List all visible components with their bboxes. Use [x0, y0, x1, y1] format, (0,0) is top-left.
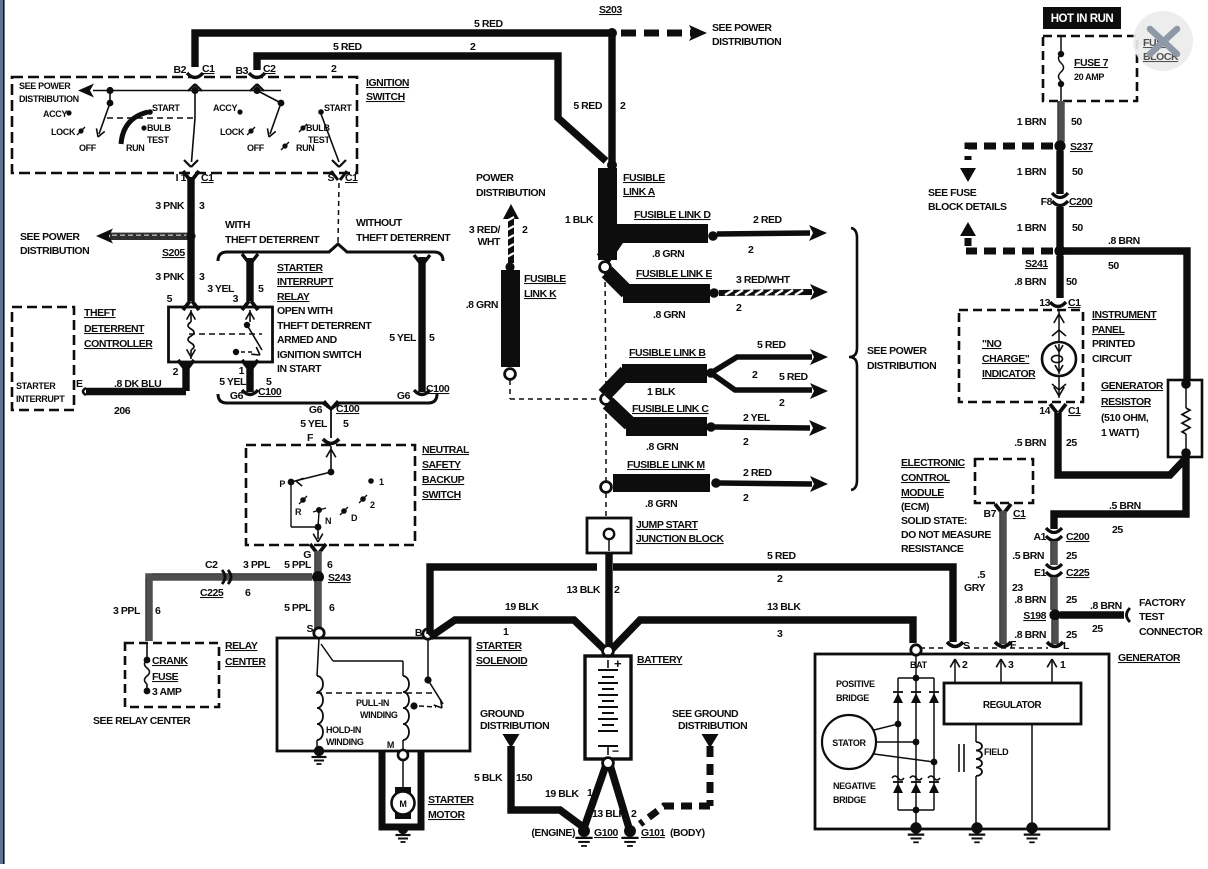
svg-text:STARTER: STARTER: [16, 381, 56, 391]
wire 5 BLK ground distribution to G100: [511, 746, 583, 827]
svg-text:(ECM): (ECM): [901, 501, 929, 513]
connector C2 C225: [222, 570, 225, 584]
svg-text:2: 2: [631, 808, 637, 820]
arrow up to S241 dashed branch: [960, 222, 976, 236]
svg-text:50: 50: [1108, 260, 1119, 272]
close button watermark: [1133, 11, 1193, 71]
svg-text:13 BLK: 13 BLK: [592, 808, 626, 820]
wire 3 PPL S243 to C225 to crank fuse: [149, 577, 312, 641]
wire .8 BRN S198 to factory test connector: [1060, 611, 1124, 618]
dashed wire ignition S to brace: [338, 183, 339, 243]
svg-text:5 RED: 5 RED: [757, 339, 787, 351]
svg-text:DISTRIBUTION: DISTRIBUTION: [20, 245, 89, 257]
no charge indicator box: [959, 310, 1083, 402]
stator: [822, 715, 876, 769]
svg-text:1 BRN: 1 BRN: [1017, 116, 1046, 128]
svg-text:ARMED AND: ARMED AND: [277, 334, 338, 346]
ignition key arc: [121, 112, 148, 144]
arrow SEE POWER DISTRIBUTION at S205: [110, 233, 189, 240]
svg-text:2 RED: 2 RED: [753, 214, 783, 226]
wire 5 RED link B upper arrow: [711, 357, 812, 373]
svg-text:WHT: WHT: [477, 236, 501, 248]
connector B7 C1: [995, 504, 1002, 513]
terminal L connector: [1047, 642, 1063, 647]
svg-text:5: 5: [258, 283, 264, 295]
svg-text:STARTER: STARTER: [277, 262, 324, 274]
svg-text:2: 2: [620, 100, 626, 112]
wire 19 BLK battery to G100: [584, 765, 606, 828]
svg-text:5 RED: 5 RED: [573, 100, 603, 112]
svg-text:3 PPL: 3 PPL: [113, 605, 141, 617]
connector B2 C1: [187, 73, 203, 78]
svg-text:SEE POWER: SEE POWER: [712, 22, 772, 34]
connector G6 C100 right: [414, 390, 430, 395]
generator box: [815, 654, 1109, 829]
wire .8 BRN E1 to S198: [1050, 577, 1058, 610]
svg-text:RUN: RUN: [296, 143, 314, 153]
svg-text:ACCY: ACCY: [43, 109, 67, 119]
svg-text:"NO: "NO: [982, 338, 1002, 350]
fuse 7: [1060, 36, 1062, 52]
node S203: [607, 28, 617, 38]
svg-text:WINDING: WINDING: [326, 737, 364, 747]
left switch wiper: [107, 100, 114, 107]
svg-text:FUSE 7: FUSE 7: [1074, 57, 1109, 69]
svg-text:SAFETY: SAFETY: [422, 459, 461, 471]
dashed run line: [107, 117, 194, 119]
viewer window left border: [0, 0, 3, 864]
fusible link K: [501, 270, 520, 367]
svg-text:25: 25: [1066, 550, 1077, 562]
svg-text:FUSIBLE LINK C: FUSIBLE LINK C: [632, 403, 709, 415]
svg-text:5 YEL: 5 YEL: [389, 332, 417, 344]
svg-text:.8 GRN: .8 GRN: [652, 248, 684, 260]
regulator box: [944, 683, 1081, 724]
wire .5 BRN resistor to A1 C200: [1054, 457, 1186, 529]
fusible link E: [607, 272, 627, 292]
svg-text:F: F: [307, 432, 314, 444]
svg-text:INSTRUMENT: INSTRUMENT: [1092, 309, 1157, 321]
crank fuse relay center box: [125, 643, 219, 707]
svg-text:3: 3: [199, 271, 205, 283]
svg-text:5 PPL: 5 PPL: [284, 559, 312, 571]
svg-text:DISTRIBUTION: DISTRIBUTION: [712, 36, 781, 48]
svg-text:TEST: TEST: [1139, 611, 1165, 623]
svg-text:B3: B3: [235, 65, 248, 77]
svg-text:BRIDGE: BRIDGE: [836, 693, 869, 703]
svg-text:OFF: OFF: [79, 143, 97, 153]
svg-text:WINDING: WINDING: [360, 710, 398, 720]
svg-text:CIRCUIT: CIRCUIT: [1092, 353, 1132, 365]
svg-text:50: 50: [1071, 116, 1082, 128]
fusible link M: [613, 474, 710, 492]
svg-text:1: 1: [503, 626, 509, 638]
hold-in winding: [317, 676, 323, 740]
svg-text:B7: B7: [983, 508, 996, 520]
NSS position 2: [360, 496, 366, 502]
svg-text:THEFT DETERRENT: THEFT DETERRENT: [356, 232, 451, 244]
wire 5 RED link B lower arrow: [711, 373, 812, 390]
svg-text:CENTER: CENTER: [225, 656, 266, 668]
svg-text:LINK A: LINK A: [623, 186, 656, 198]
svg-text:E1: E1: [1034, 567, 1047, 579]
svg-text:BULB: BULB: [147, 123, 171, 133]
wire .8 BRN S241 to C1-13: [1056, 256, 1063, 298]
ignition switch box: [12, 77, 357, 173]
svg-text:BACKUP: BACKUP: [422, 474, 465, 486]
svg-text:3: 3: [777, 628, 783, 640]
svg-text:3: 3: [1008, 659, 1014, 671]
connector E1 C225: [1046, 564, 1062, 569]
terminal B: [423, 629, 433, 639]
svg-text:BAT: BAT: [910, 660, 928, 670]
NSS position P: [288, 479, 295, 486]
svg-text:G101: G101: [641, 827, 665, 839]
wire 1 BRN S237 to C200: [1056, 151, 1063, 194]
svg-text:.5 BRN: .5 BRN: [1012, 550, 1044, 562]
svg-text:150: 150: [516, 772, 533, 784]
ground G101: [624, 825, 636, 837]
wire 5 PPL S243 to solenoid S: [314, 581, 322, 629]
terminal F connector: [995, 642, 1011, 647]
start feed to S: [321, 114, 339, 162]
svg-text:C225: C225: [200, 587, 224, 599]
svg-text:REGULATOR: REGULATOR: [983, 700, 1043, 711]
connector S C1: [332, 160, 339, 167]
svg-text:FACTORY: FACTORY: [1139, 597, 1186, 609]
svg-text:ACCY: ACCY: [213, 103, 237, 113]
svg-text:PANEL: PANEL: [1092, 324, 1126, 336]
svg-text:RESISTANCE: RESISTANCE: [901, 543, 964, 555]
svg-text:SEE POWER: SEE POWER: [867, 345, 927, 357]
svg-text:DISTRIBUTION: DISTRIBUTION: [867, 360, 936, 372]
svg-text:THEFT: THEFT: [84, 307, 117, 319]
svg-text:STARTER: STARTER: [428, 794, 475, 806]
svg-text:C100: C100: [258, 386, 282, 398]
svg-text:+: +: [614, 656, 622, 671]
svg-text:LOCK: LOCK: [220, 127, 245, 137]
svg-text:SEE POWER: SEE POWER: [20, 231, 80, 243]
svg-text:5 YEL: 5 YEL: [219, 376, 247, 388]
NSS position 1: [368, 478, 374, 484]
svg-text:G6: G6: [309, 404, 323, 416]
dashed wire S241 to see fuse block: [966, 248, 1053, 255]
node M junction: [601, 482, 612, 493]
svg-text:PRINTED: PRINTED: [1092, 338, 1136, 350]
svg-text:13 BLK: 13 BLK: [567, 584, 601, 596]
svg-text:6: 6: [327, 559, 333, 571]
relay internal dashed link: [189, 333, 262, 335]
svg-text:INDICATOR: INDICATOR: [982, 368, 1036, 380]
svg-text:C1: C1: [201, 172, 214, 184]
svg-text:13 BLK: 13 BLK: [767, 601, 801, 613]
solenoid ground: [316, 740, 318, 747]
diode bridge rails: [915, 655, 917, 678]
svg-text:FUSIBLE: FUSIBLE: [524, 273, 566, 285]
svg-text:5 RED: 5 RED: [333, 41, 363, 53]
svg-text:G6: G6: [230, 390, 244, 402]
starter solenoid box: [277, 638, 470, 751]
generator main ground: [913, 807, 920, 814]
ignition feed rail: [93, 90, 281, 92]
svg-text:STATOR: STATOR: [832, 738, 866, 748]
svg-text:20 AMP: 20 AMP: [1074, 72, 1104, 82]
svg-text:PULL-IN: PULL-IN: [356, 698, 389, 708]
svg-text:25: 25: [1066, 437, 1077, 449]
svg-text:BLOCK DETAILS: BLOCK DETAILS: [928, 201, 1007, 213]
wire 3 RED WHT link E arrow striped: [719, 292, 812, 293]
svg-text:2: 2: [736, 302, 742, 314]
svg-text:2: 2: [748, 244, 754, 256]
svg-text:LOCK: LOCK: [51, 127, 76, 137]
solenoid linkage dashed: [316, 692, 435, 694]
svg-text:6: 6: [245, 587, 251, 599]
svg-text:ELECTRONIC: ELECTRONIC: [901, 457, 966, 469]
svg-text:D: D: [351, 513, 358, 523]
svg-text:DETERRENT: DETERRENT: [84, 323, 145, 335]
terminal S: [314, 628, 324, 638]
connector 13 C1: [1050, 302, 1066, 307]
svg-text:CONTROL: CONTROL: [901, 472, 951, 484]
svg-text:SWITCH: SWITCH: [366, 91, 405, 103]
svg-text:1 BRN: 1 BRN: [1017, 166, 1046, 178]
svg-text:N: N: [325, 516, 331, 526]
svg-text:DISTRIBUTION: DISTRIBUTION: [678, 720, 747, 732]
svg-text:LINK K: LINK K: [524, 288, 557, 300]
svg-text:FUSIBLE LINK B: FUSIBLE LINK B: [629, 347, 706, 359]
svg-text:23: 23: [1012, 582, 1023, 594]
svg-text:THEFT DETERRENT: THEFT DETERRENT: [277, 320, 372, 332]
svg-text:14: 14: [1039, 405, 1050, 417]
svg-text:C2: C2: [263, 63, 276, 75]
svg-text:BRIDGE: BRIDGE: [833, 795, 866, 805]
svg-text:1 BRN: 1 BRN: [1017, 222, 1046, 234]
svg-text:C100: C100: [336, 403, 360, 415]
svg-text:3 RED/WHT: 3 RED/WHT: [736, 274, 791, 286]
dashed wire link K to node B-C: [509, 380, 511, 399]
wire M to starter motor: [402, 760, 404, 789]
svg-text:3 PNK: 3 PNK: [155, 271, 185, 283]
svg-text:I 1: I 1: [176, 172, 187, 184]
svg-text:1 WATT): 1 WATT): [1101, 427, 1139, 439]
svg-text:2: 2: [370, 500, 375, 510]
svg-text:DISTRIBUTION: DISTRIBUTION: [476, 187, 545, 199]
svg-text:1 BLK: 1 BLK: [565, 214, 594, 226]
wire .8 BRN S241 right to resistor: [1064, 251, 1187, 380]
svg-text:HOT IN RUN: HOT IN RUN: [1051, 13, 1114, 25]
pull-in winding: [403, 676, 409, 740]
svg-text:CONNECTOR: CONNECTOR: [1139, 626, 1203, 638]
svg-text:5 PPL: 5 PPL: [284, 602, 312, 614]
svg-text:RELAY: RELAY: [277, 291, 310, 303]
svg-text:S: S: [327, 172, 334, 184]
svg-text:206: 206: [114, 405, 131, 417]
svg-text:SEE GROUND: SEE GROUND: [672, 708, 739, 720]
svg-text:2 RED: 2 RED: [743, 467, 773, 479]
svg-text:POWER: POWER: [476, 172, 514, 184]
svg-text:MODULE: MODULE: [901, 487, 944, 499]
svg-text:50: 50: [1072, 222, 1083, 234]
svg-text:FIELD: FIELD: [984, 747, 1009, 757]
svg-text:5 RED: 5 RED: [767, 550, 797, 562]
wire .8 DK BLU E to relay pin2: [86, 388, 186, 395]
ground G100: [578, 825, 590, 837]
svg-text:S203: S203: [599, 4, 622, 16]
NSS position R: [300, 497, 306, 503]
svg-text:5 BLK: 5 BLK: [474, 772, 503, 784]
wire 1 BRN C200 to S241: [1056, 207, 1063, 251]
wire 13 BLK battery to G101: [610, 765, 629, 828]
svg-text:2: 2: [743, 492, 749, 504]
svg-text:.8 GRN: .8 GRN: [653, 309, 685, 321]
relay pin 5 connector: [183, 301, 190, 310]
svg-text:G6: G6: [397, 390, 411, 402]
svg-text:2: 2: [173, 366, 179, 378]
crank fuse element: [144, 657, 151, 664]
node link K top: [505, 262, 514, 271]
fusible link A: [598, 168, 617, 260]
wire 5 RED B2 to S203: [195, 33, 609, 67]
svg-text:FUSIBLE LINK E: FUSIBLE LINK E: [636, 268, 712, 280]
svg-text:CRANK: CRANK: [152, 655, 189, 667]
svg-text:25: 25: [1092, 623, 1103, 635]
svg-text:F: F: [1010, 639, 1017, 651]
svg-text:C1: C1: [1068, 297, 1081, 309]
svg-text:L: L: [1063, 640, 1070, 652]
dashed wire S237 to see fuse block: [968, 146, 1053, 160]
svg-text:13: 13: [1039, 297, 1050, 309]
node S241: [1054, 245, 1065, 256]
svg-text:P: P: [279, 479, 285, 489]
svg-text:SEE FUSE: SEE FUSE: [928, 187, 977, 199]
svg-text:6: 6: [329, 602, 335, 614]
starter interrupt relay box: [169, 307, 273, 362]
svg-text:POSITIVE: POSITIVE: [836, 679, 875, 689]
svg-text:.5 BRN: .5 BRN: [1109, 500, 1141, 512]
svg-text:2: 2: [470, 41, 476, 53]
svg-text:.5: .5: [977, 569, 985, 581]
svg-text:NEGATIVE: NEGATIVE: [833, 781, 876, 791]
relay contact: [249, 310, 251, 322]
bottom brace: [218, 394, 437, 409]
relay coil element: [190, 310, 192, 322]
battery negative terminal: [603, 758, 614, 769]
svg-text:DISTRIBUTION: DISTRIBUTION: [19, 94, 79, 104]
svg-text:JUNCTION BLOCK: JUNCTION BLOCK: [636, 533, 724, 545]
wire 5 RED B3 branch: [257, 56, 606, 161]
svg-text:19 BLK: 19 BLK: [505, 601, 539, 613]
svg-text:RUN: RUN: [126, 143, 144, 153]
svg-text:3 PPL: 3 PPL: [243, 559, 271, 571]
wire 5 YEL brace to F: [330, 408, 332, 438]
svg-text:3 RED/: 3 RED/: [469, 224, 501, 236]
svg-text:.8 GRN: .8 GRN: [646, 441, 678, 453]
solenoid S internal wiring: [317, 638, 319, 676]
generator pin arrows: [954, 661, 956, 683]
wire 3 YEL brace to relay pin 3: [246, 258, 253, 301]
svg-text:OFF: OFF: [247, 143, 265, 153]
svg-text:JUMP START: JUMP START: [636, 519, 699, 531]
svg-text:B: B: [415, 627, 423, 639]
svg-text:RESISTOR: RESISTOR: [1101, 396, 1152, 408]
svg-text:CONTROLLER: CONTROLLER: [84, 338, 153, 350]
svg-text:R: R: [295, 507, 302, 517]
right switch wiper: [278, 100, 285, 107]
see power distribution brace: [849, 228, 857, 490]
svg-text:FUSE: FUSE: [152, 671, 179, 683]
hot in run banner: [1043, 7, 1121, 29]
center feed to I1: [194, 91, 196, 119]
wire 5 RED S203 down to fusible link A: [608, 36, 615, 163]
node S243: [312, 571, 324, 583]
svg-text:M: M: [399, 799, 406, 809]
dashed wire node B-C to node M: [605, 405, 607, 483]
svg-text:S237: S237: [1070, 141, 1093, 153]
svg-text:GROUND: GROUND: [480, 708, 525, 720]
svg-text:THEFT DETERRENT: THEFT DETERRENT: [225, 234, 320, 246]
NSS position N: [316, 507, 322, 513]
svg-text:3 PNK: 3 PNK: [155, 200, 185, 212]
svg-text:SOLENOID: SOLENOID: [476, 655, 528, 667]
svg-text:.8 BRN: .8 BRN: [1108, 235, 1140, 247]
wire 3 PNK S205 to relay: [187, 239, 194, 301]
top brace: [218, 244, 443, 261]
node S205: [186, 231, 195, 240]
svg-text:STARTER: STARTER: [476, 640, 523, 652]
fusible link D: [603, 234, 620, 259]
fuse block box: [1043, 36, 1137, 101]
wire 19 BLK solenoid B to battery: [430, 620, 604, 649]
svg-text:3 AMP: 3 AMP: [152, 686, 182, 698]
wire 2 RED link M arrow: [720, 483, 812, 484]
svg-text:S: S: [306, 623, 313, 635]
connector B3 C2: [249, 73, 265, 78]
svg-text:25: 25: [1066, 594, 1077, 606]
svg-text:2: 2: [752, 369, 758, 381]
electronic control module box: [975, 459, 1033, 503]
battery positive terminal: [603, 646, 614, 657]
svg-text:MOTOR: MOTOR: [428, 809, 466, 821]
svg-text:5: 5: [343, 418, 349, 430]
svg-text:C1: C1: [1068, 405, 1081, 417]
svg-text:GENERATOR: GENERATOR: [1101, 380, 1164, 392]
svg-text:FUSIBLE LINK M: FUSIBLE LINK M: [627, 459, 705, 471]
svg-text:2 YEL: 2 YEL: [743, 412, 771, 424]
starter motor ground: [398, 824, 408, 834]
svg-text:IGNITION SWITCH: IGNITION SWITCH: [277, 349, 361, 361]
svg-text:B2: B2: [173, 64, 186, 76]
relay pin 1 stub to G6: [246, 362, 253, 392]
NSS position D: [341, 508, 347, 514]
svg-text:RELAY: RELAY: [225, 640, 258, 652]
svg-text:1: 1: [1060, 659, 1066, 671]
svg-text:E: E: [76, 378, 83, 390]
svg-text:5 RED: 5 RED: [474, 18, 504, 30]
wire 13 BLK battery to generator BAT: [612, 620, 913, 649]
starter motor: [395, 787, 411, 794]
svg-text:25: 25: [1112, 524, 1123, 536]
svg-text:.8 BRN: .8 BRN: [1090, 600, 1122, 612]
svg-text:SWITCH: SWITCH: [422, 489, 461, 501]
svg-text:NEUTRAL: NEUTRAL: [422, 444, 470, 456]
rail junction dots: [106, 87, 113, 94]
svg-text:S243: S243: [328, 572, 351, 584]
svg-text:S205: S205: [162, 247, 185, 259]
svg-text:WITHOUT: WITHOUT: [356, 217, 403, 229]
dashed wire node M to jump start block: [605, 493, 607, 517]
relay pin 2 stub: [182, 362, 189, 391]
svg-text:START: START: [324, 103, 352, 113]
